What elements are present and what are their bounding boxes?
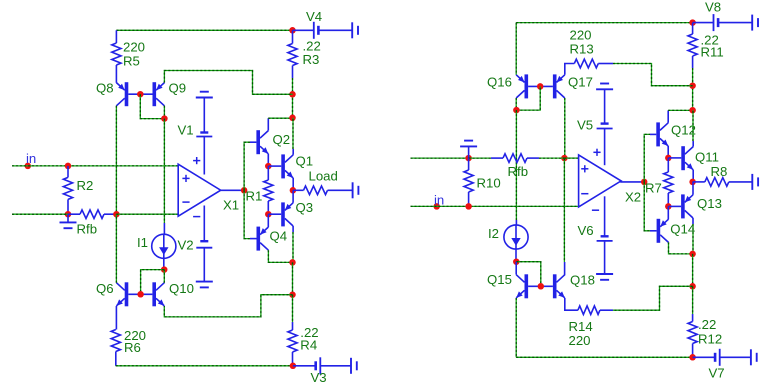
wire Q9 collector down: [163, 106, 165, 119]
battery V2: [200, 240, 208, 242]
battery V3: [293, 365, 316, 367]
svg-text:Q17: Q17: [568, 75, 593, 90]
wire collector node down: [292, 262, 294, 294]
resistor R1: [267, 166, 269, 180]
wire Q13 collector down: [692, 218, 694, 224]
wire output column to Q2 base: [244, 142, 250, 190]
node output: [290, 187, 297, 194]
node Q1 Q2 collectors R3: [289, 115, 296, 122]
battery V5: [601, 122, 609, 124]
wire Q3 base: [268, 213, 281, 215]
transistor Q10: [152, 282, 156, 306]
resistor Load: [293, 189, 304, 191]
resistor R8: [693, 181, 705, 183]
svg-text:R12: R12: [698, 332, 722, 347]
op-amp X2 supply pins: [604, 129, 606, 166]
battery V1: [200, 131, 208, 133]
ground at V1: [196, 97, 213, 99]
svg-text:Q15: Q15: [487, 272, 512, 287]
ground at V5: [596, 88, 613, 90]
ground at R10: [468, 146, 470, 158]
wire Q16 collector to I2: [515, 110, 517, 220]
svg-text:Q11: Q11: [695, 150, 719, 165]
svg-text:I1: I1: [137, 235, 148, 250]
svg-text:Rfb: Rfb: [508, 164, 529, 179]
node in label attach right: [433, 203, 440, 210]
node bottom rail / R4 / V3: [290, 363, 297, 370]
node top rail / R11 / V8: [689, 19, 696, 26]
node Q16 collector: [513, 107, 520, 114]
svg-text:Q10: Q10: [169, 281, 194, 296]
svg-text:Q9: Q9: [169, 81, 187, 96]
node Q13 Q14 collectors: [689, 251, 696, 258]
transistor Q17: [553, 74, 557, 98]
node I2 / Q15 collector: [513, 258, 520, 265]
wire Q6 collector up to feedback node: [115, 214, 117, 283]
wire Rfb row left stub: [12, 213, 68, 215]
node in label attach: [25, 163, 32, 170]
svg-text:in: in: [26, 151, 36, 166]
node I1 / Q10 collector: [161, 266, 168, 273]
wire R14 path: [613, 286, 693, 310]
wire Q6-Q10 base: [128, 293, 152, 295]
wire + node to op-amp: [564, 157, 578, 159]
svg-text:I2: I2: [488, 226, 499, 241]
svg-text:R7: R7: [645, 181, 662, 196]
wire Q3 collector down: [292, 226, 294, 232]
svg-text:R11: R11: [701, 45, 724, 60]
ground at Load: [352, 182, 354, 198]
node Q3 Q4 collectors: [289, 259, 296, 266]
wire output column to Q12 base: [644, 134, 650, 182]
wire output column to Q14 base: [644, 182, 650, 231]
wire Q8 collector column down to Rfb node: [115, 106, 117, 214]
ground at V2: [196, 281, 213, 283]
node Q11 Q12 collectors R11: [689, 107, 696, 114]
wire output column to Q4 base: [244, 190, 250, 238]
svg-text:R2: R2: [77, 178, 94, 193]
wire R11 to collector node: [692, 68, 694, 110]
svg-text:220: 220: [570, 28, 592, 43]
wire mirror base link right: [516, 262, 541, 287]
svg-text:V5: V5: [577, 118, 593, 133]
node output column / R14 link: [689, 283, 696, 290]
node Rfb feedback junction: [113, 211, 120, 218]
wire Q4 collector to node: [268, 250, 292, 262]
wire I1 to mirror node: [163, 258, 165, 270]
transistor Q18: [553, 274, 557, 298]
transistor Q13: [681, 194, 685, 218]
wire bottom rail right: [516, 356, 692, 358]
wire mirror base link: [141, 270, 165, 295]
wire Q3 emitter from output node: [292, 190, 294, 203]
wire Q18 collector column: [563, 158, 565, 262]
wire in row right: [411, 205, 579, 207]
svg-text:.22: .22: [698, 317, 716, 332]
svg-text:Rfb: Rfb: [77, 222, 98, 237]
resistor R4 .22: [292, 295, 294, 322]
wire Q8-Q9 base: [128, 93, 152, 95]
transistor Q4: [250, 238, 257, 240]
node Q16 Q17 base: [537, 83, 544, 90]
wire R13 to R11 column: [613, 64, 693, 86]
ground at V3: [350, 358, 352, 374]
resistor R12 .22: [692, 286, 694, 314]
svg-text:in: in: [434, 193, 444, 208]
wire top rail V+ left: [116, 29, 292, 31]
resistor R2: [67, 166, 69, 178]
ground at V6: [596, 273, 613, 275]
node X2 output: [641, 179, 648, 186]
battery V8: [693, 22, 714, 24]
wire Q12 emitter to Q11 base: [667, 146, 669, 158]
wire Q2 collector to node: [267, 118, 269, 130]
node Q8 Q9 base: [137, 91, 144, 98]
op-amp X1 supply pins: [203, 137, 205, 175]
svg-text:Q14: Q14: [670, 222, 695, 237]
svg-text:R13: R13: [570, 42, 594, 57]
node Q2 emitter / Q1 base / R1: [265, 163, 272, 170]
svg-text:R10: R10: [477, 176, 501, 191]
svg-text:R1: R1: [246, 189, 263, 204]
transistor Q14: [650, 230, 657, 232]
transistor Q8: [125, 82, 129, 106]
wire Q15-Q18 base: [528, 285, 553, 287]
resistor Rfb left: [68, 213, 80, 215]
svg-text:Q8: Q8: [96, 81, 114, 96]
wire rail to Q16 emitter: [515, 23, 517, 75]
svg-text:V1: V1: [178, 123, 194, 138]
wire bottom rail left: [116, 365, 293, 367]
wire Q13 base: [668, 205, 681, 207]
node R1 bottom / Q3 base / Q4 emitter: [265, 211, 272, 218]
wire Q15 emitter down to rail: [515, 298, 517, 357]
svg-text:Q13: Q13: [697, 196, 722, 211]
wire Q9 base-collector link: [140, 94, 164, 118]
node Q9 emitter link / R3: [289, 91, 296, 98]
resistor R7: [667, 158, 669, 172]
svg-text:V8: V8: [705, 0, 721, 15]
node X1 output: [241, 187, 248, 194]
svg-text:Q16: Q16: [487, 75, 512, 90]
wire R3 to collector node: [292, 78, 294, 118]
node R7 bottom / Q13 base / Q14 emitter: [665, 203, 672, 210]
svg-text:R6: R6: [124, 340, 141, 355]
wire top row right stub: [411, 157, 469, 159]
node R2 Rfb ground junction: [65, 211, 72, 218]
transistor Q1: [268, 165, 281, 167]
node R10 top / ground: [465, 155, 472, 162]
wire Q16 base-collector link: [516, 86, 540, 110]
node Q9 collector: [161, 115, 168, 122]
svg-text:Q3: Q3: [296, 200, 314, 215]
transistor Q15: [515, 262, 517, 275]
ground at V7: [750, 349, 752, 365]
node feedback + input: [561, 155, 568, 162]
wire in row to op-amp +: [12, 165, 178, 167]
resistor R3 .22: [292, 30, 294, 43]
node bottom rail / R12 / V7: [689, 354, 696, 361]
svg-text:Q12: Q12: [671, 123, 696, 138]
svg-text:V2: V2: [178, 238, 194, 253]
transistor Q16: [525, 74, 529, 98]
svg-text:220: 220: [123, 40, 145, 55]
node R10 bottom: [465, 203, 472, 210]
wire Q10 emitter path: [164, 295, 292, 317]
transistor Q11: [668, 157, 681, 159]
ground at V8: [751, 15, 753, 31]
transistor Q12: [650, 133, 656, 135]
svg-text:V3: V3: [311, 370, 327, 385]
ground at R2/Rfb: [67, 214, 69, 222]
wire Q1 emitter to output node: [292, 178, 294, 190]
svg-text:R3: R3: [303, 52, 320, 67]
wire Q16-Q17 base: [528, 85, 553, 87]
wire Q13 emitter from output node: [692, 182, 694, 195]
svg-text:R5: R5: [123, 54, 140, 69]
ground at R8: [751, 174, 753, 190]
battery V6: [601, 235, 609, 237]
wire collector node down right: [692, 254, 694, 286]
wire X2 output: [620, 181, 644, 183]
node R2 top: [65, 163, 72, 170]
svg-text:Load: Load: [309, 169, 338, 184]
svg-text:Q2: Q2: [273, 132, 291, 147]
svg-text:R8: R8: [711, 164, 728, 179]
svg-text:V7: V7: [709, 366, 725, 381]
svg-text:Q18: Q18: [570, 273, 595, 288]
current source I2: [504, 225, 528, 249]
svg-text:Q6: Q6: [96, 281, 114, 296]
wire Q9 emitter Z-link to R3 column: [164, 71, 292, 95]
svg-text:X2: X2: [625, 190, 641, 205]
wire Rfb row to op-amp minus: [116, 213, 178, 215]
op-amp X1: [178, 164, 221, 216]
svg-text:Q4: Q4: [270, 229, 288, 244]
svg-text:Q1: Q1: [296, 154, 314, 169]
svg-text:220: 220: [569, 333, 591, 348]
current source I1: [152, 234, 176, 258]
transistor Q3: [281, 202, 285, 226]
resistor R11 .22: [692, 23, 694, 34]
wire Q16 collector down: [515, 98, 517, 110]
ground at V4: [351, 22, 353, 38]
transistor Q6: [125, 282, 129, 306]
wire Q9 collector to I1: [163, 119, 165, 223]
wire Q14 emitter from R7 bottom node: [667, 206, 669, 219]
battery V7: [693, 356, 716, 358]
node R13 link / R11 column: [689, 82, 696, 89]
wire top rail V+ right: [516, 22, 692, 24]
resistor R13 220: [565, 64, 575, 75]
resistor R10: [468, 158, 470, 170]
resistor Rfb right: [469, 157, 491, 159]
op-amp X2: [579, 155, 622, 207]
svg-text:V6: V6: [578, 223, 594, 238]
resistor R6 220: [115, 306, 117, 330]
wire Q11 collector up: [692, 141, 694, 147]
node output column / Q10 emitter link: [289, 291, 296, 298]
wire I2 to mirror node: [515, 248, 517, 261]
transistor Q9: [153, 82, 157, 106]
wire Q4 emitter from R1 bottom node: [267, 214, 269, 227]
node Q15 Q18 base: [538, 283, 545, 290]
svg-text:X1: X1: [223, 198, 239, 213]
wire Q12 collector to node: [667, 110, 669, 122]
node Q6 Q10 base: [137, 291, 144, 298]
transistor Q2: [250, 141, 256, 143]
resistor R14 220: [565, 298, 578, 310]
wire Q17 collector down to + node: [564, 98, 566, 158]
svg-text:R14: R14: [569, 319, 593, 334]
wire Q11 emitter to output node: [692, 170, 694, 182]
svg-text:V4: V4: [306, 9, 322, 24]
svg-text:R4: R4: [300, 338, 317, 353]
node Q12 emitter / Q11 base / R7: [665, 155, 672, 162]
wire Q14 collector to node: [669, 242, 693, 254]
wire Q1 collector up: [292, 149, 294, 155]
wire Q2 emitter to Q1 base: [267, 154, 269, 166]
wire Q10 collector up: [163, 270, 165, 283]
wire X1 output: [221, 189, 244, 191]
node top rail / R3 / V4 junction: [289, 27, 296, 34]
node output right: [689, 179, 696, 186]
battery V4: [293, 29, 314, 31]
resistor R5 220: [115, 30, 117, 43]
